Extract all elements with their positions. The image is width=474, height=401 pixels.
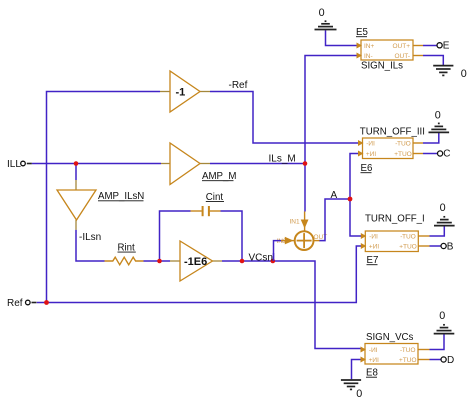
svg-text:0: 0: [439, 310, 445, 322]
svg-text:OUT-: OUT-: [400, 234, 416, 241]
svg-text:B: B: [447, 241, 454, 252]
svg-text:C: C: [443, 149, 450, 160]
svg-text:OUT+: OUT+: [399, 244, 417, 251]
svg-text:IN+: IN+: [366, 151, 377, 158]
svg-text:0: 0: [461, 68, 467, 80]
svg-text:OUT+: OUT+: [392, 43, 410, 50]
svg-text:0: 0: [440, 202, 446, 214]
svg-text:-ILsn: -ILsn: [79, 232, 101, 243]
svg-text:IN+: IN+: [368, 357, 379, 364]
svg-text:-1E6: -1E6: [184, 256, 207, 268]
svg-text:0: 0: [319, 7, 325, 19]
svg-text:VCsn: VCsn: [249, 253, 273, 264]
svg-text:TURN_OFF_III: TURN_OFF_III: [360, 127, 425, 138]
svg-text:Ref: Ref: [7, 298, 23, 309]
svg-text:TURN_OFF_I: TURN_OFF_I: [365, 214, 425, 225]
svg-text:0: 0: [435, 110, 441, 122]
svg-text:-1: -1: [176, 87, 186, 99]
svg-text:0: 0: [356, 388, 362, 400]
svg-text:IN+: IN+: [364, 43, 375, 50]
svg-text:IN-: IN-: [369, 347, 378, 354]
svg-text:IN1: IN1: [290, 219, 301, 226]
svg-text:OUT+: OUT+: [394, 151, 412, 158]
svg-text:OUT-: OUT-: [395, 141, 411, 148]
svg-text:SIGN_VCs: SIGN_VCs: [366, 332, 414, 343]
svg-text:A: A: [331, 190, 338, 201]
svg-text:-Ref: -Ref: [229, 80, 248, 91]
svg-text:IN-: IN-: [369, 234, 378, 241]
svg-text:IN-: IN-: [366, 141, 375, 148]
svg-text:ILL: ILL: [7, 159, 21, 170]
svg-text:SIGN_ILs: SIGN_ILs: [361, 61, 403, 72]
svg-text:IN+: IN+: [369, 244, 380, 251]
svg-text:ILs_M: ILs_M: [269, 154, 296, 165]
svg-text:IN-: IN-: [364, 53, 373, 60]
svg-text:OUT+: OUT+: [399, 357, 417, 364]
svg-text:D: D: [447, 355, 454, 366]
svg-text:E: E: [443, 40, 450, 51]
svg-text:OUT-: OUT-: [394, 53, 410, 60]
svg-text:OUT-: OUT-: [400, 347, 416, 354]
